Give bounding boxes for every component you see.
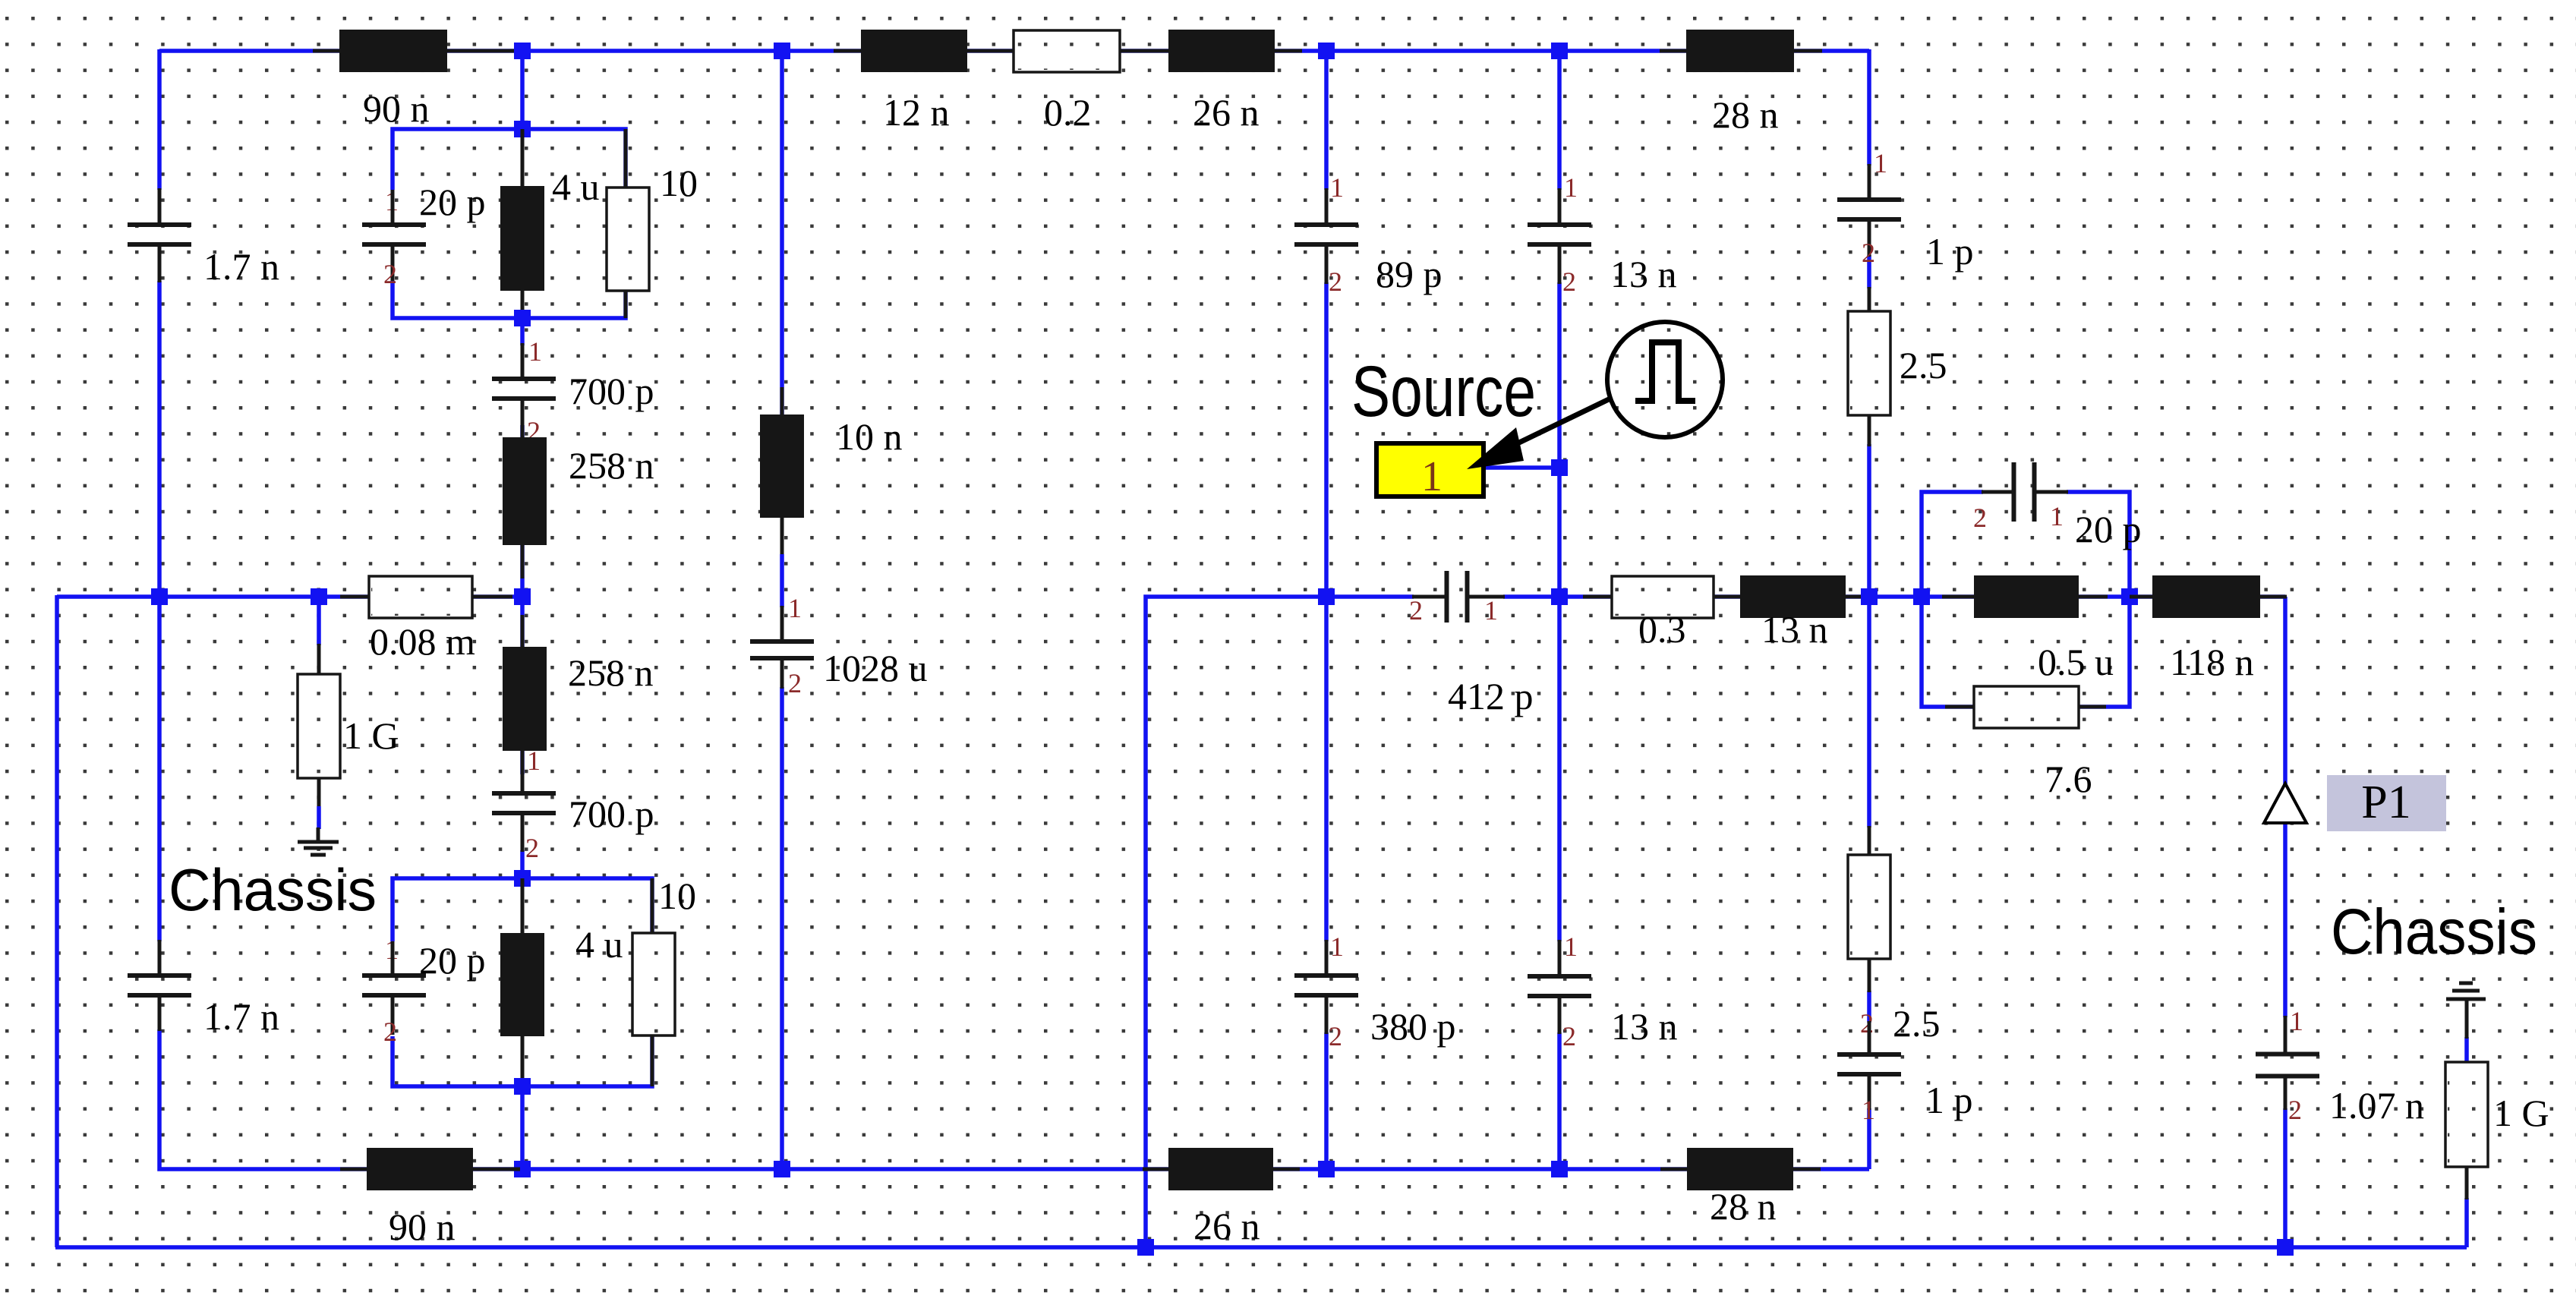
resistor 0.2 bbox=[1014, 30, 1120, 72]
wire lead 26n left bbox=[1120, 49, 1168, 53]
svg-text:28 n: 28 n bbox=[1712, 93, 1779, 136]
wire lead 20p-top below bbox=[391, 244, 395, 281]
wire lead 700p-bot above bbox=[521, 751, 525, 794]
wire 1G branch lower bbox=[317, 806, 321, 829]
svg-text:P1: P1 bbox=[2361, 777, 2410, 828]
node mid bus x210 bbox=[151, 588, 168, 605]
svg-text:1 p: 1 p bbox=[1926, 230, 1974, 273]
resistor 2.5 (bottom) bbox=[1848, 855, 1890, 959]
svg-text:2: 2 bbox=[788, 668, 802, 698]
wire lead 90n left bbox=[313, 49, 339, 53]
svg-text:1 p: 1 p bbox=[1925, 1079, 1973, 1121]
wire lead 118n right bbox=[2260, 595, 2287, 599]
wire center chain bottom bbox=[520, 1086, 525, 1169]
svg-text:10 n: 10 n bbox=[836, 415, 903, 458]
capacitor 1.7 n (top) bbox=[128, 225, 191, 244]
capacitor 1 p (bottom) bbox=[1837, 1054, 1901, 1074]
svg-text:1: 1 bbox=[1874, 148, 1887, 178]
source pulse glyph bbox=[1635, 342, 1695, 401]
wire lead 412p left bbox=[1412, 595, 1448, 599]
wire top block loop right bbox=[522, 129, 626, 318]
wire bottom block loop left low bbox=[393, 1036, 522, 1086]
wire lead 380p below bbox=[1325, 995, 1329, 1034]
resistor 10 (bottom block) bbox=[632, 933, 675, 1035]
svg-text:258 n: 258 n bbox=[569, 444, 654, 487]
svg-text:1: 1 bbox=[1484, 595, 1498, 626]
wire lead 118n left bbox=[2130, 595, 2152, 599]
svg-text:2: 2 bbox=[1329, 266, 1342, 297]
source arrow head bbox=[1467, 427, 1524, 469]
wire right block loop top r bbox=[2067, 492, 2130, 597]
wire left rail seg3 bbox=[157, 597, 162, 941]
svg-text:10: 10 bbox=[660, 162, 698, 204]
wire left rail seg4 bbox=[159, 1029, 342, 1169]
node mid bus x2054 bbox=[1551, 588, 1568, 605]
svg-text:2: 2 bbox=[1409, 595, 1423, 626]
svg-text:26 n: 26 n bbox=[1193, 1205, 1260, 1247]
capacitor 20 p (right) bbox=[2014, 462, 2035, 522]
svg-text:1: 1 bbox=[788, 593, 802, 623]
wire lead 26nbot left bbox=[1143, 1168, 1168, 1171]
svg-text:89 p: 89 p bbox=[1376, 253, 1442, 295]
inductor 4 u (bottom block) bbox=[500, 933, 544, 1036]
inductor 13 n (series) bbox=[1740, 575, 1846, 618]
wire lead 0.08m left bbox=[340, 595, 369, 599]
svg-text:20 p: 20 p bbox=[419, 181, 486, 223]
svg-text:13 n: 13 n bbox=[1610, 253, 1677, 295]
wire lead 700p-bot below bbox=[521, 812, 525, 852]
wire lead 0.08m right bbox=[472, 595, 512, 599]
svg-text:1: 1 bbox=[528, 336, 542, 367]
svg-text:2: 2 bbox=[1562, 1021, 1576, 1051]
svg-text:2: 2 bbox=[1562, 266, 1576, 297]
node mid bus x688 bbox=[514, 588, 531, 605]
svg-text:13 n: 13 n bbox=[1611, 1005, 1678, 1048]
wire lead 1p-top above bbox=[1868, 164, 1871, 200]
wire lead cap1.7n-top below bbox=[158, 245, 162, 282]
inductor 258 n (upper) bbox=[503, 437, 547, 545]
resistor 0.3 bbox=[1612, 576, 1714, 618]
wire lead 258n-low above bbox=[521, 615, 525, 647]
node bottom bus x1509 bbox=[1137, 1239, 1154, 1256]
wire rail 13n bot lower bbox=[1557, 1032, 1562, 1169]
svg-text:1: 1 bbox=[1330, 931, 1344, 962]
capacitor 700 p (top) bbox=[492, 379, 556, 399]
svg-text:2: 2 bbox=[1973, 503, 1987, 533]
wire rail 380p lower bbox=[1324, 1032, 1329, 1169]
wire lead 20pright right bbox=[2034, 490, 2068, 494]
wire lead cap1.7n-top above bbox=[158, 188, 162, 224]
wire center chain upper bbox=[520, 51, 525, 129]
wire lead 4u-bot below bbox=[521, 1036, 525, 1086]
node mid bus x2462 bbox=[1861, 588, 1878, 605]
wire lead 380p above bbox=[1325, 940, 1329, 976]
wire lead 1p-bot below bbox=[1868, 1073, 1871, 1110]
svg-text:1: 1 bbox=[1421, 453, 1442, 500]
svg-text:1: 1 bbox=[1564, 172, 1578, 203]
wire lead 0.5u left bbox=[1942, 595, 1974, 599]
svg-text:2: 2 bbox=[2288, 1095, 2302, 1125]
wire rail 10n upper bbox=[780, 51, 784, 415]
capacitor 13 n (bottom) bbox=[1528, 976, 1591, 996]
capacitor 20 p (bottom block) bbox=[362, 976, 426, 995]
wire center chain 560-786 bbox=[520, 425, 525, 597]
wire right 1G riser bbox=[2464, 1198, 2469, 1247]
resistor 10 (top block) bbox=[607, 188, 649, 291]
capacitor 1.07 n bbox=[2256, 1054, 2319, 1076]
svg-text:1: 1 bbox=[2290, 1006, 2303, 1036]
wire left rail seg2 bbox=[157, 281, 162, 597]
wire lead 10-bot below bbox=[651, 1035, 654, 1086]
chassis ground symbol (right) bbox=[2446, 983, 2486, 999]
wire lead 12n right bbox=[967, 49, 1014, 53]
resistor 1 G (left) bbox=[298, 674, 340, 778]
svg-text:1028 u: 1028 u bbox=[823, 647, 928, 689]
inductor 10 n bbox=[760, 415, 804, 518]
svg-text:2: 2 bbox=[383, 1017, 397, 1047]
wire lead chassis-right bbox=[2465, 999, 2469, 1039]
wire lead 412p right bbox=[1466, 595, 1505, 599]
svg-text:4 u: 4 u bbox=[575, 923, 623, 966]
wire rail 2.5top seg1 bbox=[1867, 49, 1871, 165]
wire lead 10-top above bbox=[624, 129, 628, 190]
wire mid bus right riser bbox=[1146, 597, 1414, 1247]
wire lead 258n-up below bbox=[521, 545, 525, 578]
wire lead 1G-right bottom bbox=[2465, 1167, 2469, 1199]
wire rail 2.5bot seg3 bbox=[1867, 1108, 1871, 1169]
svg-text:2: 2 bbox=[1860, 1008, 1874, 1039]
svg-text:1: 1 bbox=[1564, 931, 1578, 962]
svg-text:1.07 n: 1.07 n bbox=[2329, 1084, 2424, 1127]
svg-text:0.2: 0.2 bbox=[1044, 91, 1092, 134]
svg-text:380 p: 380 p bbox=[1370, 1005, 1456, 1048]
svg-text:2: 2 bbox=[525, 833, 539, 863]
wire bottom block loop left bbox=[393, 878, 522, 941]
wire lead cap1.7n-bot below bbox=[158, 995, 162, 1031]
inductor 90 n (bottom) bbox=[367, 1148, 473, 1190]
wire lead 1p-top below bbox=[1868, 219, 1871, 257]
wire lead 13nbot above bbox=[1558, 940, 1562, 977]
wire lead 89p below bbox=[1325, 244, 1329, 284]
wire source stub bbox=[1483, 465, 1559, 470]
wire center chain 786-1000 bbox=[520, 597, 525, 774]
probe triangle P1 bbox=[2264, 783, 2306, 823]
svg-text:26 n: 26 n bbox=[1193, 91, 1260, 134]
wire lead 90nbot right bbox=[473, 1168, 520, 1171]
wire mid bus right block bbox=[1922, 594, 2285, 599]
svg-text:1 G: 1 G bbox=[2493, 1092, 2549, 1134]
probe label box P1 bbox=[2327, 775, 2446, 831]
wire rail 13n cap upper bbox=[1557, 51, 1562, 190]
wire lead 4u-top below bbox=[521, 291, 525, 318]
inductor 26 n (top) bbox=[1168, 30, 1275, 72]
svg-text:2.5: 2.5 bbox=[1900, 344, 1947, 386]
capacitor 20 p (top block) bbox=[362, 225, 426, 244]
wire lead 13n-series left bbox=[1714, 595, 1740, 599]
source symbol circle bbox=[1607, 322, 1723, 437]
wire mid bus 412p-13n bbox=[1503, 594, 1559, 599]
svg-text:700 p: 700 p bbox=[569, 370, 654, 412]
wire lead 7.6 left bbox=[1945, 705, 1974, 709]
wire lead 26n right bbox=[1275, 49, 1302, 53]
svg-text:1 G: 1 G bbox=[343, 714, 399, 757]
node mid bus x1747 bbox=[1318, 588, 1335, 605]
svg-text:20 p: 20 p bbox=[2075, 508, 2142, 550]
svg-text:0.08 m: 0.08 m bbox=[370, 620, 475, 663]
wire lead 0.5u right bbox=[2079, 595, 2108, 599]
wire lead 10-top below bbox=[624, 291, 628, 318]
wire rail 2.5bot seg2 bbox=[1867, 991, 1871, 1023]
svg-text:20 p: 20 p bbox=[419, 939, 486, 982]
wire bottom row bbox=[342, 1167, 1869, 1171]
wire lead 12n left bbox=[834, 49, 861, 53]
wire output rail seg2 bbox=[2283, 1108, 2288, 1247]
wire lead 1028u below bbox=[780, 657, 784, 689]
wire bottom block loop right bbox=[522, 878, 652, 1086]
resistor 0.08 m bbox=[369, 576, 472, 618]
wire center chain 419-455 bbox=[520, 318, 525, 345]
wire top block loop left low bbox=[393, 281, 522, 318]
wire lead 1.07n below bbox=[2284, 1075, 2288, 1110]
wire lead 0.3 left bbox=[1583, 595, 1612, 599]
inductor 28 n (bottom) bbox=[1687, 1148, 1793, 1190]
resistor 7.6 bbox=[1974, 686, 2079, 728]
wire lead 90nbot left bbox=[340, 1168, 367, 1171]
wire right block loop top bbox=[1922, 492, 1983, 597]
wire lead 1.07n above bbox=[2284, 1016, 2288, 1055]
wire 1G branch upper bbox=[317, 597, 321, 645]
capacitor 1028 u bbox=[750, 641, 814, 658]
wire left rail seg1 bbox=[157, 49, 162, 190]
wire bottom bus bbox=[55, 1245, 2467, 1250]
wire lead 28nbot right bbox=[1793, 1168, 1821, 1171]
wire lead 4u-bot above bbox=[521, 878, 525, 933]
wire lead 13n-series right bbox=[1846, 595, 1869, 599]
inductor 12 n bbox=[861, 30, 967, 72]
wire lead 1G-left bottom bbox=[317, 778, 321, 806]
node mid bus x420 bbox=[311, 588, 327, 605]
svg-text:1: 1 bbox=[1330, 172, 1344, 203]
node bottom bus x3010 bbox=[2277, 1239, 2294, 1256]
wire right chassis lead bbox=[2464, 1037, 2469, 1064]
wire lead 700p-top above bbox=[521, 343, 525, 380]
svg-text:118 n: 118 n bbox=[2170, 641, 2254, 683]
resistor 2.5 (top) bbox=[1848, 311, 1890, 415]
capacitor 89 p bbox=[1294, 225, 1358, 244]
wire rail 13n bot upper bbox=[1557, 597, 1562, 941]
wire top block loop left bbox=[393, 129, 522, 190]
inductor 28 n (top) bbox=[1686, 30, 1794, 72]
node source junction bbox=[1551, 459, 1568, 476]
svg-text:90 n: 90 n bbox=[363, 87, 430, 130]
svg-text:1.7 n: 1.7 n bbox=[203, 995, 279, 1038]
wire rail 10n mid bbox=[780, 554, 784, 607]
svg-text:7.6: 7.6 bbox=[2045, 758, 2092, 800]
capacitor 1.7 n (bottom) bbox=[128, 976, 191, 995]
svg-text:2: 2 bbox=[383, 259, 397, 289]
wire lead 20pright left bbox=[1982, 490, 2015, 494]
svg-text:28 n: 28 n bbox=[1710, 1185, 1777, 1228]
node bottom block loop bottom bbox=[514, 1078, 531, 1095]
wire rail 13n cap lower bbox=[1557, 282, 1562, 597]
node top bus x688 bbox=[514, 43, 531, 59]
svg-text:0.5 u: 0.5 u bbox=[2038, 641, 2114, 683]
node top block loop bottom bbox=[514, 310, 531, 326]
wire rail 2.5bot seg1 bbox=[1867, 597, 1871, 827]
node top bus x1747 bbox=[1318, 43, 1335, 59]
node mid bus x2805 bbox=[2121, 588, 2138, 605]
svg-text:1.7 n: 1.7 n bbox=[203, 245, 279, 288]
wire right block loop bottom bbox=[1922, 597, 2130, 707]
wire lead 10n above bbox=[780, 387, 784, 415]
svg-text:2.5: 2.5 bbox=[1893, 1002, 1941, 1045]
wire lead 1G-left top bbox=[317, 644, 321, 674]
inductor 0.5 u bbox=[1974, 575, 2079, 618]
node top bus x2054 bbox=[1551, 43, 1568, 59]
svg-text:1: 1 bbox=[1862, 1095, 1875, 1125]
svg-text:10: 10 bbox=[658, 875, 696, 917]
wire lead 13ncap above bbox=[1558, 188, 1562, 225]
node mid bus x2531 bbox=[1913, 588, 1930, 605]
inductor 4 u (top block) bbox=[500, 186, 544, 291]
inductor 90 n (top) bbox=[339, 30, 447, 72]
wire lead 13nbot below bbox=[1558, 995, 1562, 1034]
wire rail 380p upper bbox=[1324, 597, 1329, 941]
wire mid bus left bbox=[57, 594, 522, 599]
wire rail 89p upper bbox=[1324, 51, 1329, 190]
resistor 1 G (right) bbox=[2445, 1062, 2488, 1167]
wire lead 700p-top below bbox=[521, 398, 525, 439]
node top bus x1030 bbox=[774, 43, 790, 59]
wire lead 89p above bbox=[1325, 188, 1329, 225]
wire center chain 1120-1157 bbox=[520, 850, 525, 878]
svg-text:1: 1 bbox=[2050, 501, 2064, 531]
wire lead 10n below bbox=[780, 518, 784, 556]
node top block loop top bbox=[514, 121, 531, 137]
wire lead 10-bot above bbox=[651, 878, 654, 933]
wire lead 2.5top below bbox=[1868, 415, 1871, 446]
node bottom row x1030 bbox=[774, 1161, 790, 1177]
svg-text:700 p: 700 p bbox=[569, 793, 654, 835]
wire rail 2.5top seg2 bbox=[1867, 255, 1871, 288]
wire top bus bbox=[159, 49, 1869, 53]
svg-text:2: 2 bbox=[1329, 1021, 1342, 1051]
inductor 26 n (bottom) bbox=[1168, 1148, 1273, 1190]
svg-text:Source: Source bbox=[1351, 351, 1536, 432]
svg-text:12 n: 12 n bbox=[883, 91, 950, 134]
wire lead cap1.7n-bot above bbox=[158, 940, 162, 976]
wire lead 1p-bot above bbox=[1868, 1021, 1871, 1055]
capacitor 412 p bbox=[1447, 571, 1468, 623]
node bottom row x688 bbox=[514, 1161, 531, 1177]
wire lead 26nbot right bbox=[1273, 1168, 1300, 1171]
ground symbol (left) bbox=[298, 827, 339, 855]
wire lead 2.5bot below bbox=[1868, 959, 1871, 992]
wire rail 2.5top seg3 bbox=[1867, 444, 1871, 597]
node bottom row x2054 bbox=[1551, 1161, 1568, 1177]
svg-text:4 u: 4 u bbox=[552, 165, 600, 208]
wire lead 7.6 right bbox=[2079, 705, 2106, 709]
svg-text:412 p: 412 p bbox=[1448, 675, 1534, 717]
capacitor 1 p (top) bbox=[1837, 200, 1901, 219]
wire lead 28n right bbox=[1794, 49, 1822, 53]
svg-text:Chassis: Chassis bbox=[169, 856, 377, 923]
wire lead 90n right bbox=[447, 49, 518, 53]
wire lead 28nbot left bbox=[1660, 1168, 1687, 1171]
wire lead 28n left bbox=[1660, 49, 1686, 53]
svg-text:Chassis: Chassis bbox=[2331, 896, 2537, 967]
wire lead 13ncap below bbox=[1558, 244, 1562, 284]
capacitor 13 n (top) bbox=[1528, 225, 1591, 244]
svg-text:0.3: 0.3 bbox=[1638, 608, 1686, 651]
svg-text:90 n: 90 n bbox=[389, 1206, 456, 1248]
wire lead 2.5bot above bbox=[1868, 826, 1871, 856]
svg-text:2: 2 bbox=[1862, 238, 1875, 268]
wire rail 89p lower bbox=[1324, 282, 1329, 597]
source arrow line bbox=[1497, 399, 1610, 453]
wire output rail seg1 bbox=[2283, 597, 2288, 1017]
wire rail 10n lower bbox=[780, 687, 784, 1169]
inductor 118 n bbox=[2152, 575, 2260, 618]
svg-text:13 n: 13 n bbox=[1761, 608, 1828, 651]
wire lead 1028u above bbox=[780, 606, 784, 643]
wire lead 20p-bot above bbox=[391, 941, 395, 976]
capacitor 380 p bbox=[1294, 976, 1358, 995]
svg-text:258 n: 258 n bbox=[568, 651, 654, 694]
node bottom block loop top bbox=[514, 870, 531, 887]
inductor 258 n (lower) bbox=[503, 647, 547, 751]
source port box bbox=[1376, 443, 1483, 496]
svg-text:1: 1 bbox=[527, 745, 541, 776]
wire lead 2.5top above bbox=[1868, 287, 1871, 313]
wire lead 20p-bot below bbox=[391, 995, 395, 1035]
node bottom row x1747 bbox=[1318, 1161, 1335, 1177]
wire left outer rail bbox=[55, 595, 59, 1247]
wire lead 4u-top above bbox=[521, 129, 525, 186]
capacitor 700 p (bottom) bbox=[492, 793, 556, 813]
wire lead 20p-top above bbox=[391, 190, 395, 225]
wire mid bus 13n-block bbox=[1559, 594, 1922, 599]
